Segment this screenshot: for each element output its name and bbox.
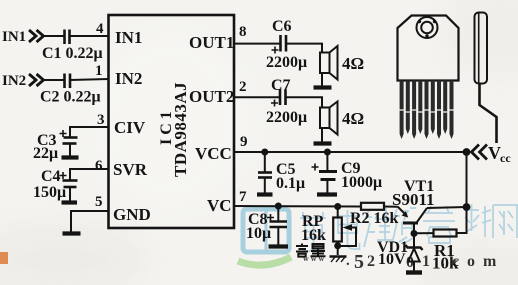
svg-text:IN1: IN1 bbox=[115, 28, 142, 47]
node base-zener bbox=[411, 230, 418, 237]
wire pin 8 OUT1 to C6 bbox=[234, 43, 280, 45]
input IN2 chevron arrow bbox=[29, 74, 44, 86]
wire VCC rail pin 9 bbox=[234, 151, 467, 153]
svg-text:2200μ: 2200μ bbox=[266, 109, 307, 126]
wire pin 5 GND to ground bbox=[71, 211, 109, 232]
watermark character 2 bbox=[338, 210, 360, 249]
capacitor C8 bbox=[267, 206, 287, 245]
ground speaker 2 bbox=[314, 141, 332, 145]
watermark character 7 bbox=[493, 205, 518, 238]
watermark character 3 bbox=[364, 208, 392, 247]
svg-text:GND: GND bbox=[113, 205, 151, 224]
package mounting hole inner bbox=[421, 22, 433, 34]
wire C7 to speaker 2 bbox=[286, 97, 323, 107]
svg-text:10V: 10V bbox=[378, 251, 406, 268]
wire base node to R1 bbox=[414, 232, 434, 234]
svg-text:1000μ: 1000μ bbox=[341, 174, 382, 191]
wire IN2 to C2 bbox=[44, 79, 65, 81]
package side view lead bbox=[480, 84, 497, 144]
svg-text:SVR: SVR bbox=[113, 160, 148, 179]
svg-text:1: 1 bbox=[422, 253, 430, 270]
svg-text:cc: cc bbox=[500, 151, 511, 165]
ground below C9 bbox=[317, 192, 337, 196]
svg-text:C1 0.22μ: C1 0.22μ bbox=[42, 45, 103, 62]
svg-text:.: . bbox=[346, 253, 350, 269]
package hole dots bbox=[418, 20, 421, 23]
watermark character 1 bbox=[300, 212, 326, 251]
wire pin 6 SVR to C4 bbox=[70, 169, 109, 180]
svg-text:IN1: IN1 bbox=[2, 29, 26, 45]
package drawing front view body bbox=[398, 16, 459, 81]
node C5 on VCC rail bbox=[261, 149, 268, 156]
svg-text:C4: C4 bbox=[41, 168, 61, 185]
wire collector to rail bbox=[427, 207, 467, 208]
svg-text:5: 5 bbox=[354, 251, 364, 273]
svg-text:0.1μ: 0.1μ bbox=[276, 175, 305, 192]
wire pin 2 OUT2 to C7 bbox=[234, 96, 280, 98]
zener diode VD1 bbox=[406, 234, 423, 272]
node RP bbox=[334, 203, 341, 210]
watermark character 6 bbox=[464, 204, 491, 237]
wire C6 to speaker 1 bbox=[286, 44, 322, 53]
node C9 on VCC rail bbox=[324, 149, 331, 156]
speaker 2 bbox=[320, 102, 338, 135]
wire R2 to transistor emitter bbox=[384, 206, 398, 208]
wire speaker 2 to ground bbox=[321, 128, 323, 142]
wire IN1 to C1 bbox=[44, 35, 65, 37]
wire C1 to pin 4 bbox=[70, 35, 109, 37]
svg-text:OUT2: OUT2 bbox=[189, 87, 234, 106]
ground below C4 bbox=[62, 200, 78, 204]
wire Vcc vertical to R1 bbox=[457, 152, 467, 233]
resistor R2 bbox=[361, 203, 384, 210]
label volume (Chinese) bbox=[296, 244, 326, 257]
wire pin 3 CIV to C3 bbox=[70, 127, 109, 137]
svg-text:6: 6 bbox=[95, 158, 103, 174]
svg-text:150μ: 150μ bbox=[33, 184, 66, 201]
ground below RP hatched bbox=[330, 257, 347, 263]
watermark logo book icon bbox=[243, 209, 289, 252]
svg-text:VC: VC bbox=[207, 196, 232, 215]
svg-text:IN2: IN2 bbox=[115, 69, 142, 88]
node Vcc arrow bbox=[463, 148, 471, 156]
svg-text:4Ω: 4Ω bbox=[342, 109, 364, 128]
watermark character 4 bbox=[392, 208, 416, 244]
ground speaker 1 bbox=[314, 85, 332, 89]
ground below C5 bbox=[257, 192, 273, 196]
svg-text:9: 9 bbox=[240, 134, 248, 150]
svg-text:CIV: CIV bbox=[114, 118, 146, 137]
svg-text:10k: 10k bbox=[432, 254, 459, 273]
input IN1 chevron arrow bbox=[29, 30, 44, 42]
svg-text:4: 4 bbox=[96, 21, 104, 37]
node RP bottom bbox=[334, 242, 341, 249]
watermark url row bbox=[346, 251, 497, 273]
svg-text:S9011: S9011 bbox=[392, 190, 435, 209]
wire pin 7 VC line bbox=[234, 205, 361, 208]
watermark orange block bbox=[0, 252, 8, 264]
svg-text:10μ: 10μ bbox=[246, 225, 271, 242]
node C8 bbox=[275, 203, 282, 210]
svg-text:7: 7 bbox=[239, 189, 247, 205]
capacitor C2 bbox=[63, 74, 66, 89]
ground below C8 bbox=[269, 244, 289, 248]
svg-text:4Ω: 4Ω bbox=[342, 54, 364, 73]
capacitor C4 bbox=[60, 172, 78, 201]
svg-text:3: 3 bbox=[97, 112, 105, 128]
svg-text:22μ: 22μ bbox=[33, 145, 58, 162]
ground pin 5 bbox=[63, 231, 81, 235]
svg-text:2: 2 bbox=[367, 253, 375, 270]
svg-text:TDA9843AJ: TDA9843AJ bbox=[171, 82, 190, 177]
package pins bbox=[400, 81, 454, 140]
potentiometer RP bbox=[333, 207, 342, 256]
capacitor C5 bbox=[258, 152, 272, 193]
capacitor C3 bbox=[60, 130, 78, 156]
RP wiper arrow bbox=[341, 228, 356, 247]
package mounting hole outer bbox=[417, 17, 438, 38]
svg-text:8: 8 bbox=[239, 24, 247, 40]
resistor R1 bbox=[434, 230, 457, 237]
svg-text:16k: 16k bbox=[301, 227, 326, 244]
watermark green curve bbox=[238, 257, 291, 265]
wire C2 to pin 1 bbox=[70, 79, 109, 80]
node collector bbox=[463, 203, 471, 211]
IC U1 TDA9843AJ body bbox=[109, 15, 235, 228]
svg-text:5: 5 bbox=[95, 194, 103, 210]
capacitor C9 bbox=[312, 152, 338, 193]
svg-text:m: m bbox=[483, 253, 497, 270]
ground below C3 bbox=[62, 155, 79, 159]
capacitor C1 bbox=[63, 30, 66, 45]
svg-text:o: o bbox=[467, 253, 475, 270]
svg-text:2: 2 bbox=[239, 79, 247, 95]
wire speaker 1 to ground bbox=[321, 73, 323, 86]
package pin notches bbox=[400, 110, 454, 112]
svg-text:R2 16k: R2 16k bbox=[350, 210, 399, 227]
svg-text:C2 0.22μ: C2 0.22μ bbox=[40, 89, 101, 106]
capacitor C6 bbox=[279, 35, 282, 52]
speaker 1 bbox=[320, 46, 338, 80]
svg-text:IN2: IN2 bbox=[2, 73, 26, 89]
package side view body bbox=[475, 13, 488, 84]
watermark character 5 bbox=[423, 206, 455, 243]
transistor VT1 S9011 bbox=[398, 207, 428, 234]
capacitor C7 bbox=[279, 90, 282, 106]
svg-text:2200μ: 2200μ bbox=[266, 54, 307, 71]
svg-text:1: 1 bbox=[95, 63, 103, 79]
ground below VD1 bbox=[406, 270, 422, 274]
svg-text:C7: C7 bbox=[271, 77, 291, 94]
Vcc arrow chevrons bbox=[472, 145, 488, 160]
svg-text:VCC: VCC bbox=[195, 144, 232, 163]
svg-text:C6: C6 bbox=[272, 18, 292, 35]
transistor emitter arrowhead bbox=[402, 211, 409, 217]
svg-text:OUT1: OUT1 bbox=[189, 33, 234, 52]
